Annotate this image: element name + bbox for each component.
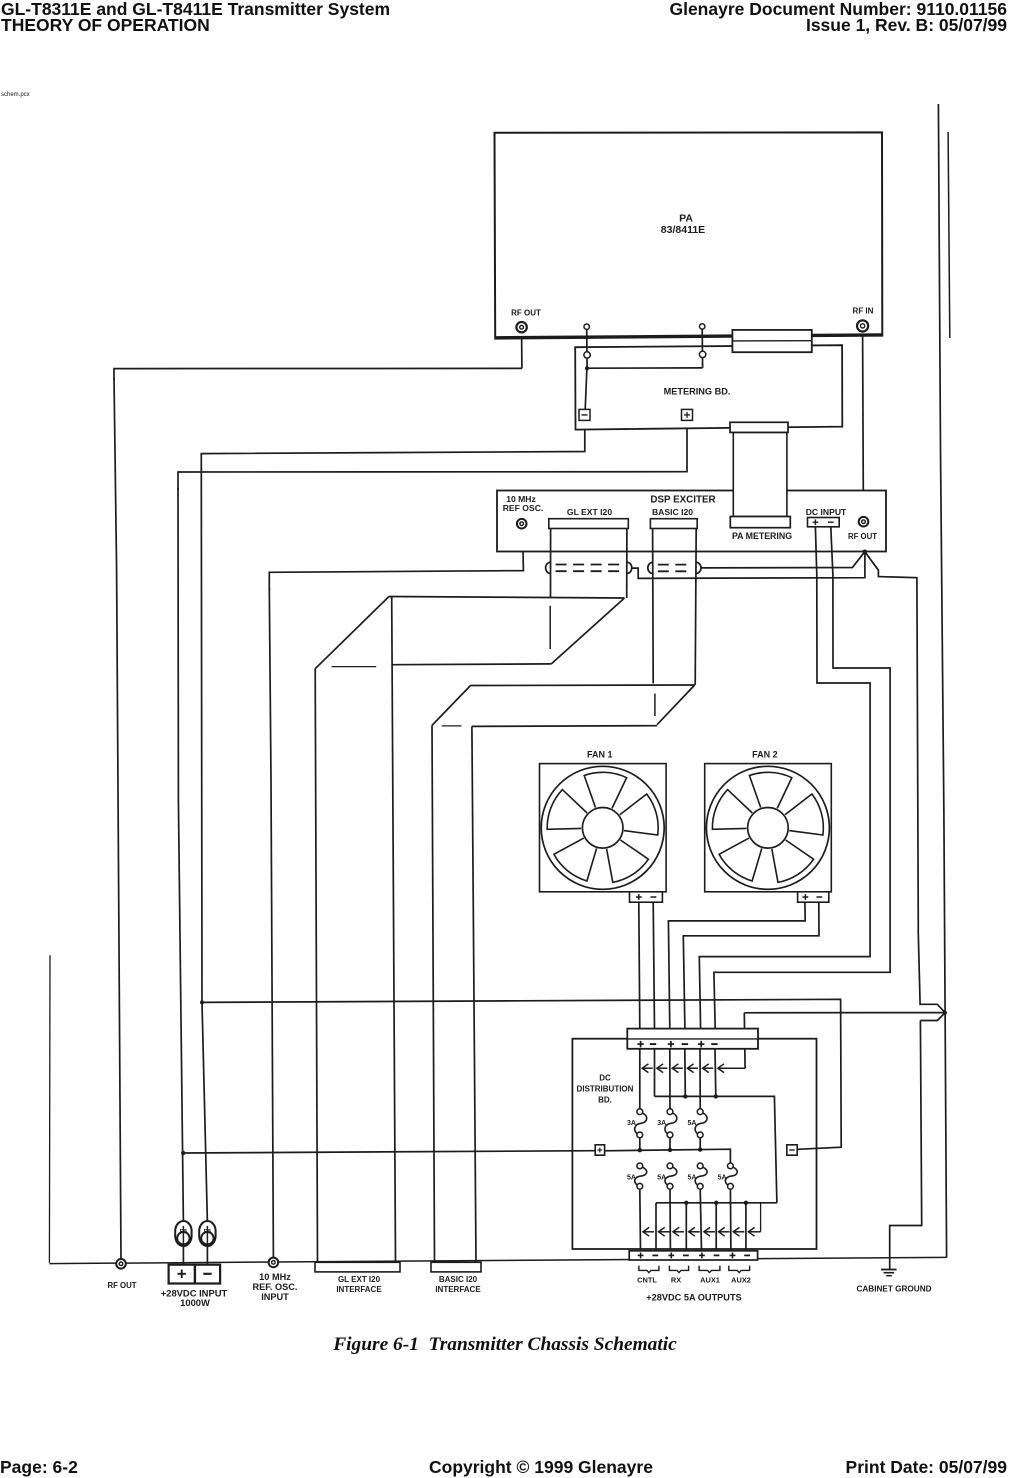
svg-text:GL EXT I20: GL EXT I20 xyxy=(567,507,612,517)
svg-text:DC: DC xyxy=(599,1074,611,1083)
wire: right cabinet bus (long vertical) xyxy=(938,104,946,1258)
terminal: DC input plus/minus xyxy=(808,518,840,527)
terminal: +28VDC input block xyxy=(169,1265,221,1284)
svg-text:1000W: 1000W xyxy=(180,1297,210,1308)
wire: strip pin 2 to minus bus xyxy=(654,1049,656,1097)
connector: 10 MHz ref osc input jack xyxy=(269,1258,279,1268)
wire: fan 1 minus to strip xyxy=(653,902,654,1029)
svg-text:10 MHz: 10 MHz xyxy=(259,1272,291,1282)
svg-text:5A: 5A xyxy=(627,1175,636,1182)
fuse holder FB1 xyxy=(175,1221,191,1246)
wire: 10 MHz ref osc to bottom input xyxy=(269,528,523,1258)
connector: PA RF IN jack xyxy=(857,320,868,331)
node: bus merge junction with jogs xyxy=(744,930,947,1269)
cable: GL EXT I20 ribbon upper drop xyxy=(551,529,627,599)
connector: BASIC I20 interface xyxy=(431,1262,481,1272)
wire: exciter RF out middle leg to GL coil xyxy=(632,552,865,579)
wire: fuse holders to input terminals xyxy=(183,1246,207,1265)
fuse F5 5A xyxy=(667,1163,673,1169)
svg-text:PA: PA xyxy=(679,213,693,225)
wire: strip pin 1 to fuse F1 xyxy=(639,1049,641,1109)
svg-text:RF IN: RF IN xyxy=(853,306,874,315)
cable: BASIC ribbon lower drop xyxy=(432,725,476,1262)
svg-text:RX: RX xyxy=(671,1275,681,1284)
svg-text:INPUT: INPUT xyxy=(261,1292,289,1302)
wire: PA RF IN to DSP exciter RF OUT xyxy=(862,332,865,517)
svg-text:+28VDC 5A OUTPUTS: +28VDC 5A OUTPUTS xyxy=(646,1292,741,1302)
svg-text:DISTRIBUTION: DISTRIBUTION xyxy=(577,1085,634,1094)
connector: GL EXT I20 header xyxy=(549,519,629,529)
svg-text:FAN 1: FAN 1 xyxy=(587,749,613,759)
connector: chassis RF OUT jack xyxy=(116,1259,126,1269)
svg-text:PA METERING: PA METERING xyxy=(732,531,792,541)
svg-text:BASIC I20: BASIC I20 xyxy=(439,1275,478,1284)
cable: BASIC ribbon coil xyxy=(648,562,653,573)
block: metering board xyxy=(575,345,842,429)
node: PA output pin B xyxy=(700,324,705,329)
wire: strip pin 6 to minus bus xyxy=(714,1049,717,1097)
wire: plus feed to DC board plus terminal xyxy=(181,1151,595,1156)
svg-text:AUX2: AUX2 xyxy=(731,1275,751,1284)
connector: GL EXT I20 interface xyxy=(315,1262,400,1272)
wire: upper minus collector bus xyxy=(655,1094,777,1203)
wire: fan 2 minus to strip xyxy=(683,902,819,1029)
wire: PA RF OUT to chassis RF OUT (left long run) xyxy=(114,332,522,1258)
svg-text:RF OUT: RF OUT xyxy=(848,532,877,541)
node: metering input pin A xyxy=(584,352,590,358)
svg-text:DC INPUT: DC INPUT xyxy=(806,507,847,517)
svg-text:5A: 5A xyxy=(718,1175,727,1182)
wire: fan 2 plus to strip xyxy=(668,902,805,1029)
wire: strip pin 4 to minus bus xyxy=(684,1049,687,1097)
wire: strip feed from bus junction xyxy=(743,1013,746,1068)
fuse F7 5A xyxy=(728,1163,734,1169)
cable: GL EXT ribbon fold xyxy=(315,597,624,669)
connector: PA/metering ribbon coupler xyxy=(732,330,811,352)
svg-text:DSP EXCITER: DSP EXCITER xyxy=(650,495,715,506)
svg-text:AUX1: AUX1 xyxy=(700,1275,720,1284)
cable: GL EXT ribbon coil xyxy=(546,562,551,573)
terminal: metering plus xyxy=(682,409,693,420)
fuse F4 5A xyxy=(637,1163,643,1169)
svg-text:BD.: BD. xyxy=(598,1096,612,1105)
fuse F2 3A xyxy=(667,1109,673,1115)
wire: chassis left corner riser xyxy=(48,955,51,1263)
wire: DC input plus to distribution strip xyxy=(699,527,870,1029)
fuse holder FB2 xyxy=(199,1221,215,1246)
cable: BASIC I20 ribbon upper drop xyxy=(653,529,697,685)
cable: BASIC ribbon fold xyxy=(432,685,695,726)
wire: strip pin 3 to fuse F2 xyxy=(669,1049,671,1109)
fuse F1 3A xyxy=(637,1109,643,1115)
node: metering input pin B xyxy=(699,351,705,357)
terminal: fan 1 plus/minus xyxy=(630,892,663,902)
wire: DC input minus to distribution strip xyxy=(714,527,890,1029)
svg-text:3A: 3A xyxy=(657,1120,666,1127)
svg-text:5A: 5A xyxy=(688,1120,697,1127)
fuse F3 5A xyxy=(697,1109,703,1115)
svg-text:RF OUT: RF OUT xyxy=(107,1281,136,1290)
fan FAN2 rotor xyxy=(706,766,829,889)
wire: fused outputs down to output strip xyxy=(640,1189,731,1251)
wire: metering plus to left bus xyxy=(178,421,687,1223)
wire: exciter RF out to BASIC coil (upper link) xyxy=(701,552,865,568)
wire: lower minus distribution bus xyxy=(656,1201,777,1251)
svg-text:3A: 3A xyxy=(627,1120,636,1127)
wire: minus distribution bus (y~1000) to DC board minus xyxy=(200,999,841,1149)
terminal: metering minus xyxy=(579,409,590,420)
svg-text:REF OSC.: REF OSC. xyxy=(503,503,544,513)
wire: chassis bottom baseline xyxy=(49,1257,946,1263)
wire: strip pin 5 to fuse F3 xyxy=(699,1049,701,1109)
fan FAN1 rotor xyxy=(541,766,664,889)
block: DC distribution board xyxy=(572,1039,816,1249)
svg-text:REF. OSC.: REF. OSC. xyxy=(253,1282,298,1292)
svg-text:INTERFACE: INTERFACE xyxy=(435,1285,481,1294)
svg-text:5A: 5A xyxy=(688,1175,697,1182)
svg-text:METERING BD.: METERING BD. xyxy=(664,386,731,396)
cable: PA metering ribbon xyxy=(730,422,790,527)
svg-text:INTERFACE: INTERFACE xyxy=(336,1285,382,1294)
fan FAN2 housing xyxy=(705,764,832,892)
svg-text:CNTL: CNTL xyxy=(637,1275,657,1284)
wire: plus bus through fuses xyxy=(604,1138,730,1163)
wire: metering minus to left bus xyxy=(201,421,585,1223)
block: DSP exciter xyxy=(497,491,886,552)
svg-text:BASIC I20: BASIC I20 xyxy=(652,507,693,517)
connector: PA RF OUT jack xyxy=(516,322,526,332)
svg-text:5A: 5A xyxy=(657,1175,666,1182)
block: PA 83/8411E power amplifier xyxy=(495,132,883,338)
node: output pin arrows row xyxy=(643,1203,761,1236)
wire: second cabinet line (top right) xyxy=(948,132,950,338)
connector: BASIC I20 header xyxy=(650,519,697,529)
svg-text:83/8411E: 83/8411E xyxy=(661,224,705,236)
svg-text:CABINET GROUND: CABINET GROUND xyxy=(856,1285,931,1294)
node: input pin arrows row xyxy=(642,1064,745,1073)
node: output group brackets xyxy=(639,1266,750,1273)
ground: cabinet ground symbol xyxy=(881,1270,897,1276)
cable: GL EXT ribbon lower drop xyxy=(315,597,395,1263)
terminal: fan 2 plus/minus xyxy=(798,892,829,902)
terminal: DC board plus stud xyxy=(595,1145,604,1155)
fuse F6 5A xyxy=(697,1163,703,1169)
wire: PA to metering pin links xyxy=(585,329,703,409)
svg-text:FAN 2: FAN 2 xyxy=(752,749,778,759)
node: PA output pin A xyxy=(584,324,589,329)
terminal: +28VDC outputs strip xyxy=(629,1251,757,1260)
connector: DSP RF OUT jack xyxy=(859,517,869,527)
terminal: DC board minus stud xyxy=(787,1145,797,1155)
terminal: distribution input strip xyxy=(627,1029,758,1049)
wire: exciter RF out right branch to bus xyxy=(865,552,918,930)
wire: fan 1 plus to strip xyxy=(639,902,640,1029)
svg-text:GL EXT I20: GL EXT I20 xyxy=(338,1275,381,1284)
connector: 10 MHz ref osc jack xyxy=(517,519,527,529)
fan FAN1 housing xyxy=(540,764,667,892)
svg-text:RF OUT: RF OUT xyxy=(511,308,541,317)
